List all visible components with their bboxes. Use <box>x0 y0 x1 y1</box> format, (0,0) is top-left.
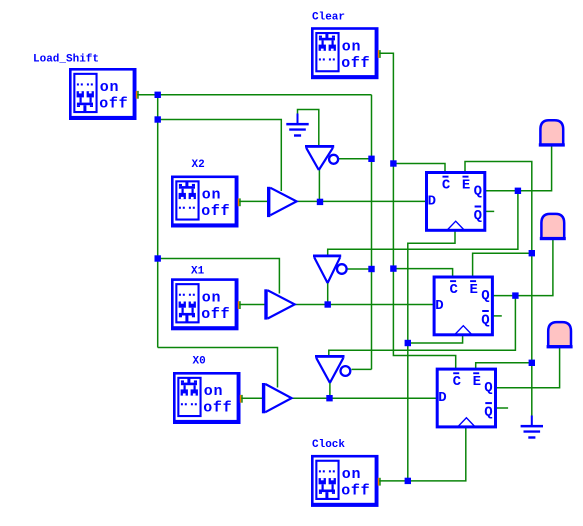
wire FF2 Q to LED2 <box>493 240 553 296</box>
wire Load_Shift output to load column <box>136 94 372 96</box>
junction buffer B2 enable branch <box>155 255 161 261</box>
LED3 (Q0 output indicator) <box>547 322 573 348</box>
wire buffer B3 enable branch <box>158 348 278 388</box>
junction clock output node <box>405 478 411 484</box>
junction FF1 Q node <box>515 188 521 194</box>
wire clear branch to FF1 C <box>393 164 445 173</box>
switch Clear (on) <box>311 27 381 79</box>
junction buffer B3 output / U4 output node <box>326 395 332 401</box>
wire FF1 Q to LED1 <box>485 146 552 191</box>
wire load-shift buffer-enable column <box>157 95 159 348</box>
tri-state inverter-style buffer U2 (shift-in, active-low enable) <box>305 145 338 170</box>
switch X1 (off) <box>171 278 241 330</box>
wire buffer B1 enable branch <box>158 120 282 192</box>
junction enable FF2 branch <box>529 250 535 256</box>
wire ground G1 to tri-state U2 input <box>298 110 319 147</box>
flip-flop U6 (D flip-flop FF2) <box>434 277 492 335</box>
junction enable FF3 branch <box>529 360 535 366</box>
junction U3 enable node <box>368 266 374 272</box>
wire clock column to FF1 clock <box>408 230 455 481</box>
wire tri-state U3 output <box>327 283 329 305</box>
svg-text:Clock: Clock <box>312 439 345 451</box>
wire FF2 Qbar stub <box>493 315 502 317</box>
wire buffer B1 output to FF1 D <box>297 200 427 202</box>
buffer B1 (X2 load buffer) <box>267 187 297 217</box>
switch X0 (on) <box>173 372 243 424</box>
wire enable branch to FF2 E <box>473 253 532 277</box>
LED2 (Q1 output indicator) <box>540 214 566 240</box>
wire enable branch to FF3 E <box>476 363 532 369</box>
wire clear branch to FF2 C <box>393 269 452 277</box>
wire tri-state U4 output <box>329 382 331 398</box>
wire X1 switch to buffer B2 <box>239 304 265 306</box>
switch Clock (off) <box>311 455 381 507</box>
junction U2 enable node <box>368 156 374 162</box>
junction clock to FF2 branch <box>405 340 411 346</box>
switch X2 (on) <box>171 176 241 228</box>
wire clock branch to FF2 clock <box>408 335 463 343</box>
svg-text:X1: X1 <box>191 266 205 278</box>
wire FF3 Qbar stub <box>496 407 509 409</box>
ground G1 (shift-in ground) <box>286 114 308 137</box>
ground G2 (enable ground) <box>521 416 543 439</box>
junction buffer B2 output / U3 output node <box>325 301 331 307</box>
wire buffer B2 output to FF2 D <box>295 304 434 306</box>
wire tri-state U2 output <box>318 170 320 202</box>
wire FF2 Q shift path to tri-state U4 input <box>329 296 516 357</box>
junction buffer B1 enable branch <box>155 116 161 122</box>
switch Load_Shift (off) <box>69 68 139 120</box>
buffer B3 (X0 load buffer) <box>262 383 292 413</box>
svg-text:X2: X2 <box>192 159 205 171</box>
tri-state buffer U4 (shift path, active-low enable) <box>315 355 350 383</box>
junction clear to FF1 C node <box>390 160 396 166</box>
junction load output node <box>155 92 161 98</box>
wire tri-state U3 enable bubble to load column <box>347 268 372 270</box>
wire load enable vertical <box>371 95 373 370</box>
wire tri-state U2 enable bubble to load column <box>339 158 372 160</box>
junction FF2 Q node <box>512 292 518 298</box>
svg-text:Clear: Clear <box>312 12 345 24</box>
wire X2 switch to buffer B1 <box>239 200 268 202</box>
junction clear to FF2 C node <box>390 265 396 271</box>
svg-text:Load_Shift: Load_Shift <box>33 54 99 66</box>
wire FF1 Qbar stub <box>485 210 494 212</box>
svg-text:X0: X0 <box>193 356 206 368</box>
LED1 (Q2 output indicator) <box>539 120 565 146</box>
flip-flop U5 (D flip-flop FF1) <box>427 173 485 231</box>
wire X0 switch to buffer B3 <box>241 397 263 399</box>
wire FF1 E to enable/ground column <box>465 162 532 416</box>
junction buffer B1 output / U2 output node <box>317 199 323 205</box>
wire FF1 Q shift path to tri-state U3 input <box>328 191 518 256</box>
buffer B2 (X1 load buffer) <box>264 289 294 319</box>
wire Clock output to FF3 clock <box>379 427 466 481</box>
wire FF3 Q to LED3 <box>496 348 560 388</box>
tri-state buffer U3 (shift path, active-low enable) <box>313 255 347 284</box>
wire buffer B3 output to FF3 D <box>291 397 437 399</box>
wire buffer B2 enable branch <box>158 259 280 294</box>
wire tri-state U4 enable bubble to load column <box>352 368 372 370</box>
flip-flop U7 (D flip-flop FF3) <box>437 369 495 427</box>
wire Clear output and clear column <box>379 53 456 368</box>
